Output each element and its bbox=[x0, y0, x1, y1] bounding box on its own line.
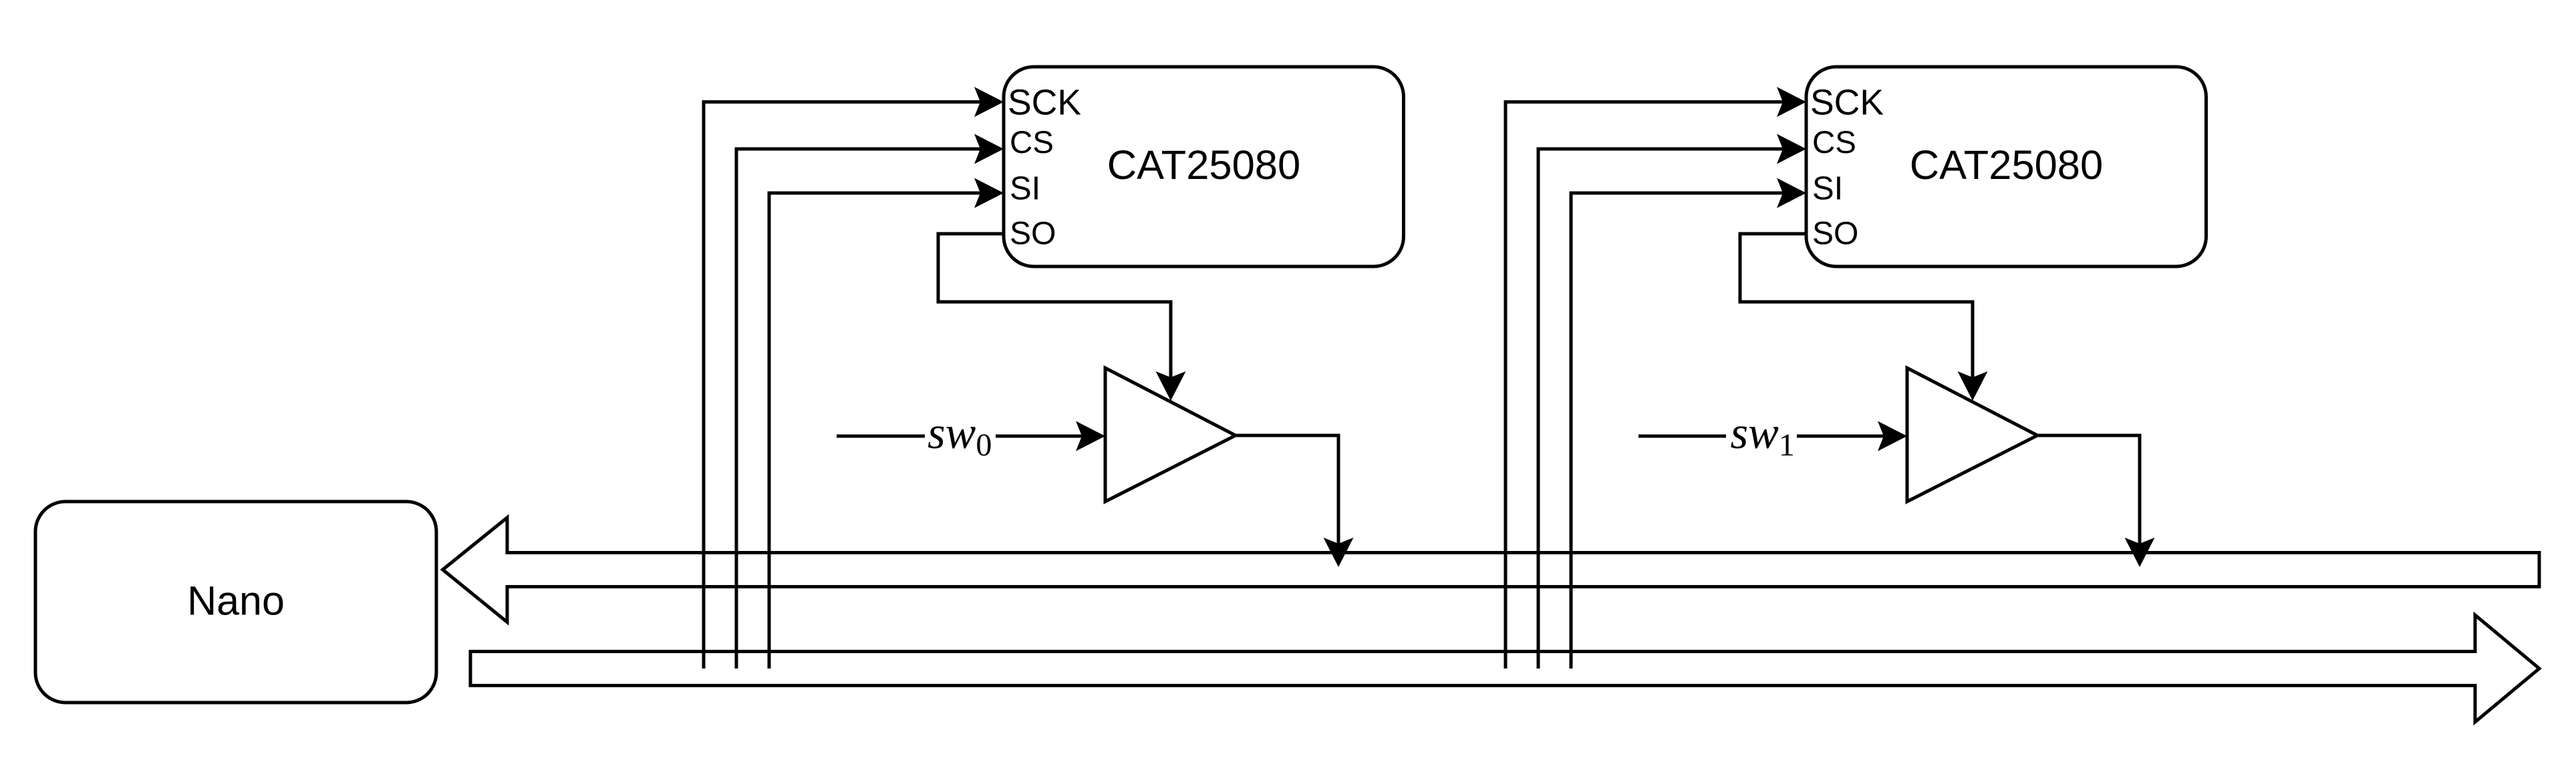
svg-text:CAT25080: CAT25080 bbox=[1910, 142, 2103, 188]
svg-text:SO: SO bbox=[1010, 216, 1056, 252]
svg-text:SCK: SCK bbox=[1810, 83, 1884, 123]
svg-text:Nano: Nano bbox=[187, 578, 285, 624]
svg-text:CS: CS bbox=[1010, 125, 1054, 160]
svg-text:CS: CS bbox=[1812, 125, 1856, 160]
svg-text:SO: SO bbox=[1812, 216, 1858, 252]
svg-text:SI: SI bbox=[1812, 171, 1843, 207]
svg-text:SI: SI bbox=[1010, 171, 1040, 207]
svg-text:SCK: SCK bbox=[1008, 83, 1081, 123]
svg-text:CAT25080: CAT25080 bbox=[1107, 142, 1300, 188]
